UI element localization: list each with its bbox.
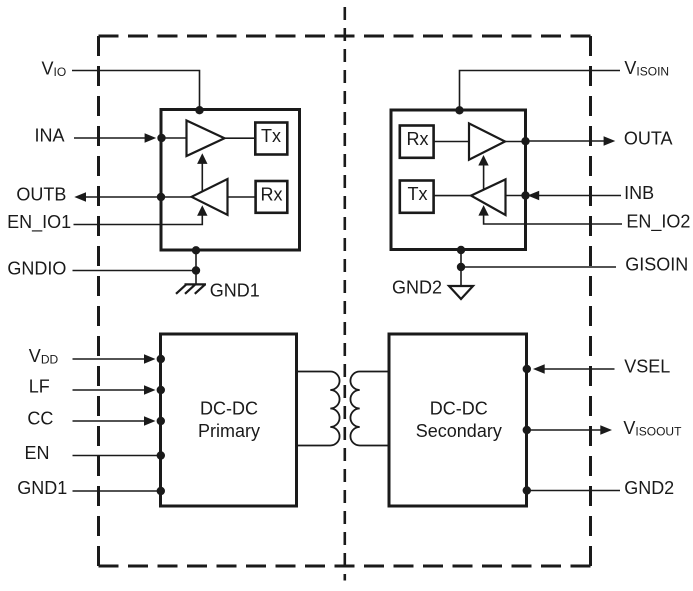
wire EN (73, 455, 161, 457)
svg-text:GND1: GND1 (210, 281, 260, 301)
buffer B2 (right, input buffer, points left) (471, 179, 506, 215)
wire INA to buffer (163, 137, 186, 139)
svg-text:EN_IO1: EN_IO1 (7, 212, 71, 233)
svg-text:DC-DC: DC-DC (430, 399, 488, 419)
wire EN_IO2 (484, 215, 622, 225)
wire INA (74, 137, 146, 139)
Rx block (right box) (400, 126, 434, 158)
DC-DC Primary block (161, 334, 297, 506)
transformer T1 secondary winding (350, 372, 389, 446)
svg-text:Tx: Tx (261, 126, 281, 146)
node GND1 dot on box bottom edge (192, 246, 200, 254)
node CC dot (157, 417, 165, 425)
node VISOOUT dot (523, 426, 531, 434)
wire GNDIO (73, 270, 197, 272)
svg-text:Rx: Rx (407, 129, 429, 149)
wire buffer B2 to Tx (434, 195, 471, 197)
Rx block (left box) (256, 181, 288, 213)
node INB dot on box edge (521, 191, 529, 199)
wire box bottom to GND1 ground (195, 250, 197, 284)
arrowhead OUTB (74, 192, 86, 202)
wire GND2 (secondary) (527, 490, 620, 492)
isolator channel box right (391, 110, 526, 250)
svg-text:GISOIN: GISOIN (625, 255, 688, 275)
arrowhead EN_IO1 enable (197, 205, 207, 216)
DC-DC Primary label (198, 399, 260, 441)
node EN dot (157, 451, 165, 459)
wire LF (73, 389, 146, 391)
arrowhead OUTA (604, 136, 616, 146)
svg-text:Tx: Tx (408, 184, 428, 204)
node VSEL dot (523, 365, 531, 373)
svg-text:GND2: GND2 (624, 478, 674, 498)
node OUTB dot on box edge (157, 193, 165, 201)
svg-text:LF: LF (29, 377, 50, 397)
wire VDD (73, 358, 146, 360)
wire OUTB (86, 196, 192, 198)
wire VISOOUT (527, 429, 601, 431)
ground symbol GND1 (hatched) (176, 284, 206, 293)
transformer T1 primary winding (297, 372, 340, 446)
wire VIO (72, 71, 200, 111)
svg-text:OUTA: OUTA (624, 129, 673, 149)
arrowhead INB (528, 191, 540, 201)
arrowhead EN_IO2 enable (478, 205, 488, 216)
svg-text:OUTB: OUTB (16, 184, 66, 204)
enable arrow between right buffers (483, 165, 485, 190)
package boundary (outer dashed rectangle) (99, 36, 591, 566)
svg-text:GND1: GND1 (17, 478, 67, 498)
svg-text:CC: CC (27, 409, 53, 429)
node GND1 dot (157, 487, 165, 495)
svg-text:EN: EN (25, 443, 50, 463)
node LF dot (157, 386, 165, 394)
node GNDIO junction dot (192, 266, 200, 274)
arrowhead VISOOUT (600, 425, 612, 435)
svg-text:VSEL: VSEL (624, 357, 670, 377)
node GISOIN junction dot (457, 263, 465, 271)
node VDD dot (157, 355, 165, 363)
buffer B1 (right, output buffer, points right) (469, 123, 505, 159)
Tx block (left box) (255, 123, 287, 155)
wire VSEL (544, 368, 615, 370)
svg-text:DC-DC: DC-DC (200, 399, 258, 419)
svg-text:INB: INB (624, 183, 654, 203)
node VIO junction dot (195, 106, 203, 114)
node OUTA dot on box edge (521, 137, 529, 145)
enable arrow between left buffers (201, 163, 203, 192)
wire GISOIN (461, 266, 616, 268)
DC-DC Secondary label (416, 399, 502, 441)
wire EN_IO1 (74, 215, 203, 225)
wire buffer B1 to box edge (505, 141, 526, 143)
node VISOIN junction dot (455, 106, 463, 114)
svg-text:EN_IO2: EN_IO2 (626, 212, 690, 233)
arrowhead VSEL (533, 364, 545, 374)
wire Rx to buffer B1 (434, 141, 469, 143)
buffer A2 (left, output buffer, points left) (192, 179, 228, 215)
svg-text:GNDIO: GNDIO (7, 259, 66, 279)
ground symbol GND2 (open triangle) (449, 286, 473, 299)
arrowhead CC (144, 416, 156, 426)
Tx block (right box) (400, 181, 434, 213)
arrowhead INA (145, 133, 157, 143)
DC-DC Secondary block (389, 334, 527, 506)
arrowhead VDD (144, 354, 156, 364)
wire GND1 (primary) (73, 490, 161, 492)
svg-text:Secondary: Secondary (416, 421, 502, 441)
wire CC (73, 420, 146, 422)
wire OUTA (526, 140, 605, 142)
arrowhead LF (144, 385, 156, 395)
wire right box bottom to GND2 ground (460, 250, 462, 286)
svg-text:Rx: Rx (261, 184, 283, 204)
wire Rx to buffer A2 (228, 196, 256, 198)
svg-text:Primary: Primary (198, 421, 260, 441)
wire VISOIN (460, 71, 621, 111)
svg-text:GND2: GND2 (392, 278, 442, 298)
node INA dot on box edge (157, 134, 165, 142)
node GND2 dot on right box bottom edge (457, 246, 465, 254)
isolation barrier (center vertical dashed line) (343, 7, 346, 581)
wire buffer A1 to Tx (225, 137, 256, 139)
isolator channel box left (161, 110, 300, 251)
node GND2 dot (523, 486, 531, 494)
wire INB (506, 195, 622, 197)
buffer A1 (left, input buffer, points right) (187, 121, 225, 157)
svg-text:INA: INA (35, 126, 65, 146)
